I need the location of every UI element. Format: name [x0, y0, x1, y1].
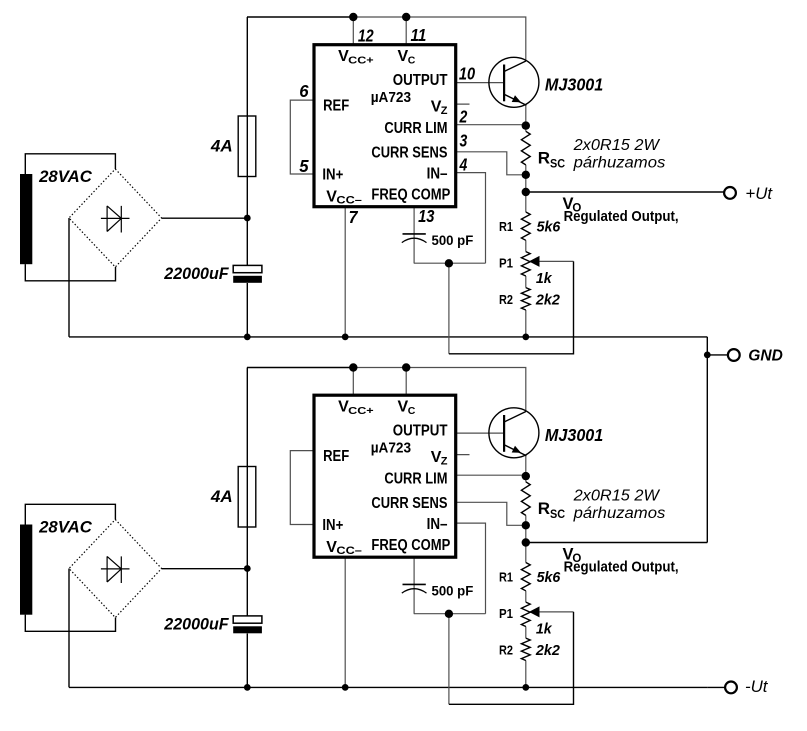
svg-text:-Ut: -Ut — [745, 678, 769, 696]
svg-text:10: 10 — [459, 64, 475, 84]
svg-text:6: 6 — [299, 81, 309, 101]
svg-text:13: 13 — [418, 206, 435, 226]
svg-text:5: 5 — [299, 156, 309, 176]
svg-text:3: 3 — [460, 130, 468, 150]
svg-text:12: 12 — [358, 25, 374, 45]
svg-text:+Ut: +Ut — [745, 185, 773, 203]
svg-text:7: 7 — [349, 207, 359, 227]
svg-text:2: 2 — [459, 106, 468, 126]
svg-text:GND: GND — [748, 347, 783, 364]
svg-text:4: 4 — [459, 154, 468, 174]
svg-text:11: 11 — [411, 25, 427, 45]
